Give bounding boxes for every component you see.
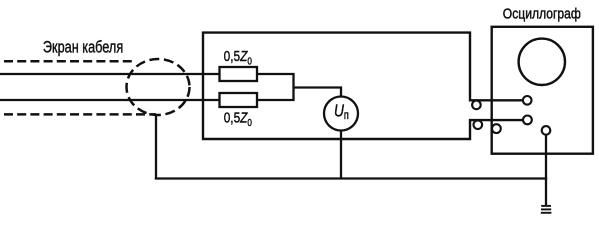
svg-text:Экран кабеля: Экран кабеля bbox=[43, 39, 123, 57]
svg-text:Осциллограф: Осциллограф bbox=[503, 6, 581, 22]
